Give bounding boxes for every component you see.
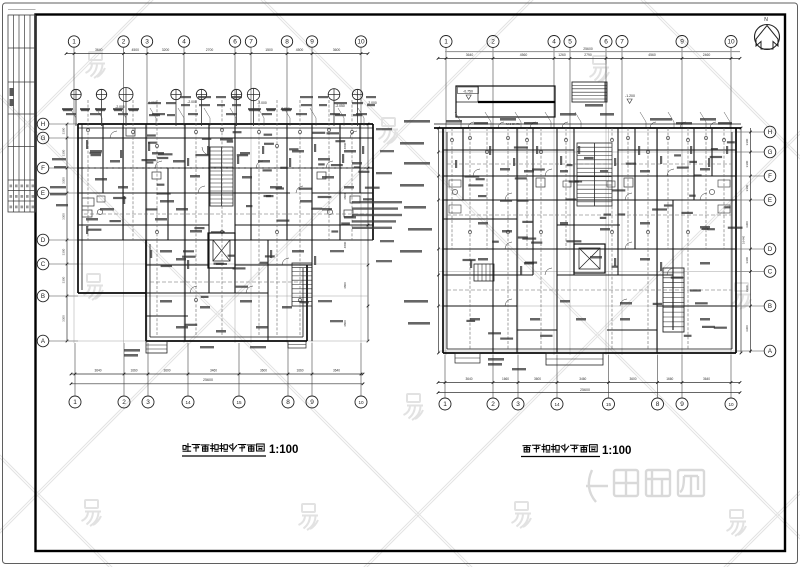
right plan left outside labels xyxy=(400,120,432,325)
svg-text:2790: 2790 xyxy=(584,53,592,57)
svg-text:3600: 3600 xyxy=(260,369,267,373)
svg-text:1660: 1660 xyxy=(666,377,673,381)
right plan letter grid bubbles xyxy=(736,126,776,357)
right plan right external stair xyxy=(663,268,684,332)
right plan door arcs interior xyxy=(473,169,707,306)
svg-text:7: 7 xyxy=(620,39,624,46)
svg-text:10: 10 xyxy=(358,400,364,405)
svg-text:D: D xyxy=(768,246,773,253)
right plan rotated pipe texts xyxy=(455,146,728,275)
svg-text:4800: 4800 xyxy=(343,282,347,289)
svg-text:8: 8 xyxy=(286,399,290,406)
left plan riser dashed pipes xyxy=(84,100,368,336)
svg-text:1660: 1660 xyxy=(130,369,137,373)
svg-text:3600: 3600 xyxy=(333,48,341,52)
svg-text:-0.750: -0.750 xyxy=(463,89,473,93)
svg-text:10: 10 xyxy=(728,402,734,407)
right plan bottom grid bubbles xyxy=(439,355,737,410)
left plan leader lines top band xyxy=(70,108,364,126)
svg-text:2: 2 xyxy=(491,401,495,408)
left plan left vertical dimension chain xyxy=(62,123,69,343)
svg-text:3300: 3300 xyxy=(62,213,66,220)
right plan grid lines through plan xyxy=(439,128,751,355)
left plan secondary wall lines xyxy=(78,124,373,337)
svg-text:-2.000: -2.000 xyxy=(187,100,197,104)
svg-text:B: B xyxy=(768,303,772,310)
right plan interior walls xyxy=(443,128,736,353)
left plan bottom left steps xyxy=(146,341,306,353)
left plan bathroom fixtures xyxy=(82,128,360,217)
svg-text:3600: 3600 xyxy=(534,377,541,381)
svg-text:15: 15 xyxy=(236,400,242,405)
left plan grid lines through plan xyxy=(67,124,368,343)
svg-text:4800: 4800 xyxy=(343,193,347,200)
right plan title text xyxy=(521,444,631,457)
svg-text:3460: 3460 xyxy=(579,377,586,381)
svg-text:3300: 3300 xyxy=(62,127,66,134)
svg-text:F: F xyxy=(768,173,772,180)
svg-text:16440: 16440 xyxy=(742,235,746,244)
svg-text:3300: 3300 xyxy=(745,221,749,228)
svg-text:G: G xyxy=(768,149,773,156)
right plan porch bottom xyxy=(455,353,603,365)
svg-text:1: 1 xyxy=(72,39,76,46)
svg-text:3300: 3300 xyxy=(745,184,749,191)
svg-text:3300: 3300 xyxy=(745,285,749,292)
svg-text:1:100: 1:100 xyxy=(602,445,631,457)
svg-text:H: H xyxy=(768,129,772,136)
svg-text:2: 2 xyxy=(122,399,126,406)
title block table left strip xyxy=(8,10,36,213)
left plan extra clutter labels xyxy=(88,131,380,326)
svg-text:3300: 3300 xyxy=(745,257,749,264)
left plan rotated pipe texts xyxy=(86,140,364,269)
left plan top dimension line xyxy=(65,48,370,55)
left plan right vertical dimension chain xyxy=(343,123,369,343)
svg-text:C: C xyxy=(768,269,773,276)
svg-text:10: 10 xyxy=(727,39,735,46)
svg-text:1260: 1260 xyxy=(558,53,566,57)
svg-text:14: 14 xyxy=(554,402,560,407)
svg-text:7: 7 xyxy=(249,39,253,46)
svg-text:4800: 4800 xyxy=(343,142,347,149)
svg-text:3: 3 xyxy=(145,39,149,46)
svg-text:-2.050: -2.050 xyxy=(335,104,345,108)
svg-text:25600: 25600 xyxy=(203,378,213,382)
left plan interior walls xyxy=(78,124,373,341)
left plan letter grid bubbles xyxy=(37,118,78,347)
svg-text:3300: 3300 xyxy=(745,325,749,332)
svg-text:2700: 2700 xyxy=(206,48,214,52)
right plan bottom dimension lines xyxy=(437,377,742,394)
right plan extra clutter labels xyxy=(463,141,743,340)
left plan outer walls xyxy=(78,124,373,341)
svg-text:3600: 3600 xyxy=(629,377,636,381)
svg-text:10: 10 xyxy=(357,39,365,46)
svg-text:3300: 3300 xyxy=(62,177,66,184)
svg-text:4560: 4560 xyxy=(520,53,528,57)
left plan elevator shaft xyxy=(208,233,235,268)
svg-text:F: F xyxy=(41,165,45,172)
left plan interior tiny labels xyxy=(86,150,362,333)
left plan stair upper xyxy=(202,147,233,206)
right plan riser dashed pipes xyxy=(447,128,732,349)
right plan pipe dots and fixtures xyxy=(449,136,730,233)
svg-text:3300: 3300 xyxy=(62,149,66,156)
north arrow xyxy=(755,25,780,50)
svg-text:4800: 4800 xyxy=(343,320,347,327)
svg-text:4: 4 xyxy=(552,39,556,46)
svg-text:1: 1 xyxy=(73,399,77,406)
svg-text:3300: 3300 xyxy=(62,248,66,255)
svg-text:D: D xyxy=(41,237,46,244)
svg-text:N: N xyxy=(764,17,768,23)
svg-text:1660: 1660 xyxy=(502,377,509,381)
svg-text:C: C xyxy=(41,261,46,268)
right plan secondary wall lines xyxy=(434,124,741,349)
left plan stair lower right xyxy=(292,263,312,306)
title block tiny text xyxy=(10,88,14,96)
left plan label band top xyxy=(62,96,376,116)
svg-text:1: 1 xyxy=(443,401,447,408)
svg-text:14: 14 xyxy=(185,400,191,405)
svg-text:3: 3 xyxy=(146,399,150,406)
left plan riser circles row xyxy=(71,88,363,127)
svg-text:G: G xyxy=(41,135,46,142)
svg-text:3640: 3640 xyxy=(703,377,710,381)
svg-text:1:100: 1:100 xyxy=(269,444,298,456)
svg-text:3300: 3300 xyxy=(62,315,66,322)
svg-text:25600: 25600 xyxy=(583,47,593,51)
right plan right vertical dimension chains xyxy=(740,127,752,355)
right plan top dimension line xyxy=(437,47,742,60)
svg-text:8: 8 xyxy=(656,401,660,408)
svg-text:E: E xyxy=(41,190,45,197)
right plan mid stair xyxy=(577,143,612,206)
right plan bottom outside labels xyxy=(488,358,526,370)
svg-text:3300: 3300 xyxy=(745,138,749,145)
left plan top grid bubbles xyxy=(68,36,366,124)
svg-text:9: 9 xyxy=(680,401,684,408)
svg-text:6: 6 xyxy=(233,39,237,46)
left plan notes block right side xyxy=(352,201,402,229)
svg-text:3460: 3460 xyxy=(210,369,217,373)
svg-text:4800: 4800 xyxy=(343,241,347,248)
right plan top leaders xyxy=(455,112,730,128)
left plan left outside labels xyxy=(50,158,68,206)
left plan bottom outside labels xyxy=(124,346,266,357)
left plan door arcs xyxy=(110,131,357,293)
svg-text:3: 3 xyxy=(516,401,520,408)
right plan outer walls xyxy=(434,128,741,353)
svg-text:2460: 2460 xyxy=(703,53,711,57)
left plan right leader labels xyxy=(318,128,394,322)
right plan canopy terrace xyxy=(456,86,555,117)
left plan bottom grid bubbles xyxy=(69,343,367,408)
svg-text:4500: 4500 xyxy=(296,48,304,52)
left plan title text xyxy=(182,444,298,456)
svg-text:6: 6 xyxy=(604,39,608,46)
svg-text:15: 15 xyxy=(606,402,612,407)
left plan bottom dimension lines xyxy=(70,369,365,386)
svg-text:2: 2 xyxy=(491,39,495,46)
svg-text:3200: 3200 xyxy=(162,48,170,52)
svg-text:1660: 1660 xyxy=(296,369,303,373)
svg-text:1500: 1500 xyxy=(265,48,273,52)
right plan door arcs top wall xyxy=(468,122,716,128)
svg-text:25600: 25600 xyxy=(580,388,590,392)
right plan interior tiny labels xyxy=(470,168,710,321)
svg-text:3640: 3640 xyxy=(333,369,340,373)
right plan top grid bubbles xyxy=(440,36,737,129)
svg-text:8: 8 xyxy=(285,39,289,46)
svg-text:5: 5 xyxy=(568,39,572,46)
svg-text:-2.000: -2.000 xyxy=(257,101,267,105)
svg-text:3300: 3300 xyxy=(62,276,66,283)
right plan band level texts xyxy=(506,122,520,126)
svg-text:4560: 4560 xyxy=(648,53,656,57)
svg-text:3640: 3640 xyxy=(466,53,474,57)
svg-text:3300: 3300 xyxy=(745,160,749,167)
left plan level annotation texts xyxy=(115,100,377,111)
svg-text:H: H xyxy=(41,121,45,128)
right plan left vertical dimension chain xyxy=(437,127,440,355)
svg-text:-1.200: -1.200 xyxy=(625,94,635,98)
svg-text:9: 9 xyxy=(310,399,314,406)
svg-text:E: E xyxy=(768,197,772,204)
right plan top band labels xyxy=(446,104,732,125)
svg-text:4: 4 xyxy=(182,39,186,46)
svg-text:9: 9 xyxy=(680,39,684,46)
svg-text:B: B xyxy=(41,293,45,300)
svg-text:3640: 3640 xyxy=(95,48,103,52)
left plan pipe dots xyxy=(86,128,353,301)
svg-text:3640: 3640 xyxy=(94,369,101,373)
svg-text:9: 9 xyxy=(310,39,314,46)
right plan elevator xyxy=(574,244,605,273)
svg-text:2: 2 xyxy=(122,39,126,46)
right plan left small stair xyxy=(474,264,494,281)
right plan top stair xyxy=(572,82,607,102)
svg-text:1: 1 xyxy=(444,39,448,46)
svg-text:3600: 3600 xyxy=(163,369,170,373)
svg-text:3640: 3640 xyxy=(465,377,472,381)
watermark large logo bottom right xyxy=(586,470,704,502)
svg-text:4500: 4500 xyxy=(131,48,139,52)
